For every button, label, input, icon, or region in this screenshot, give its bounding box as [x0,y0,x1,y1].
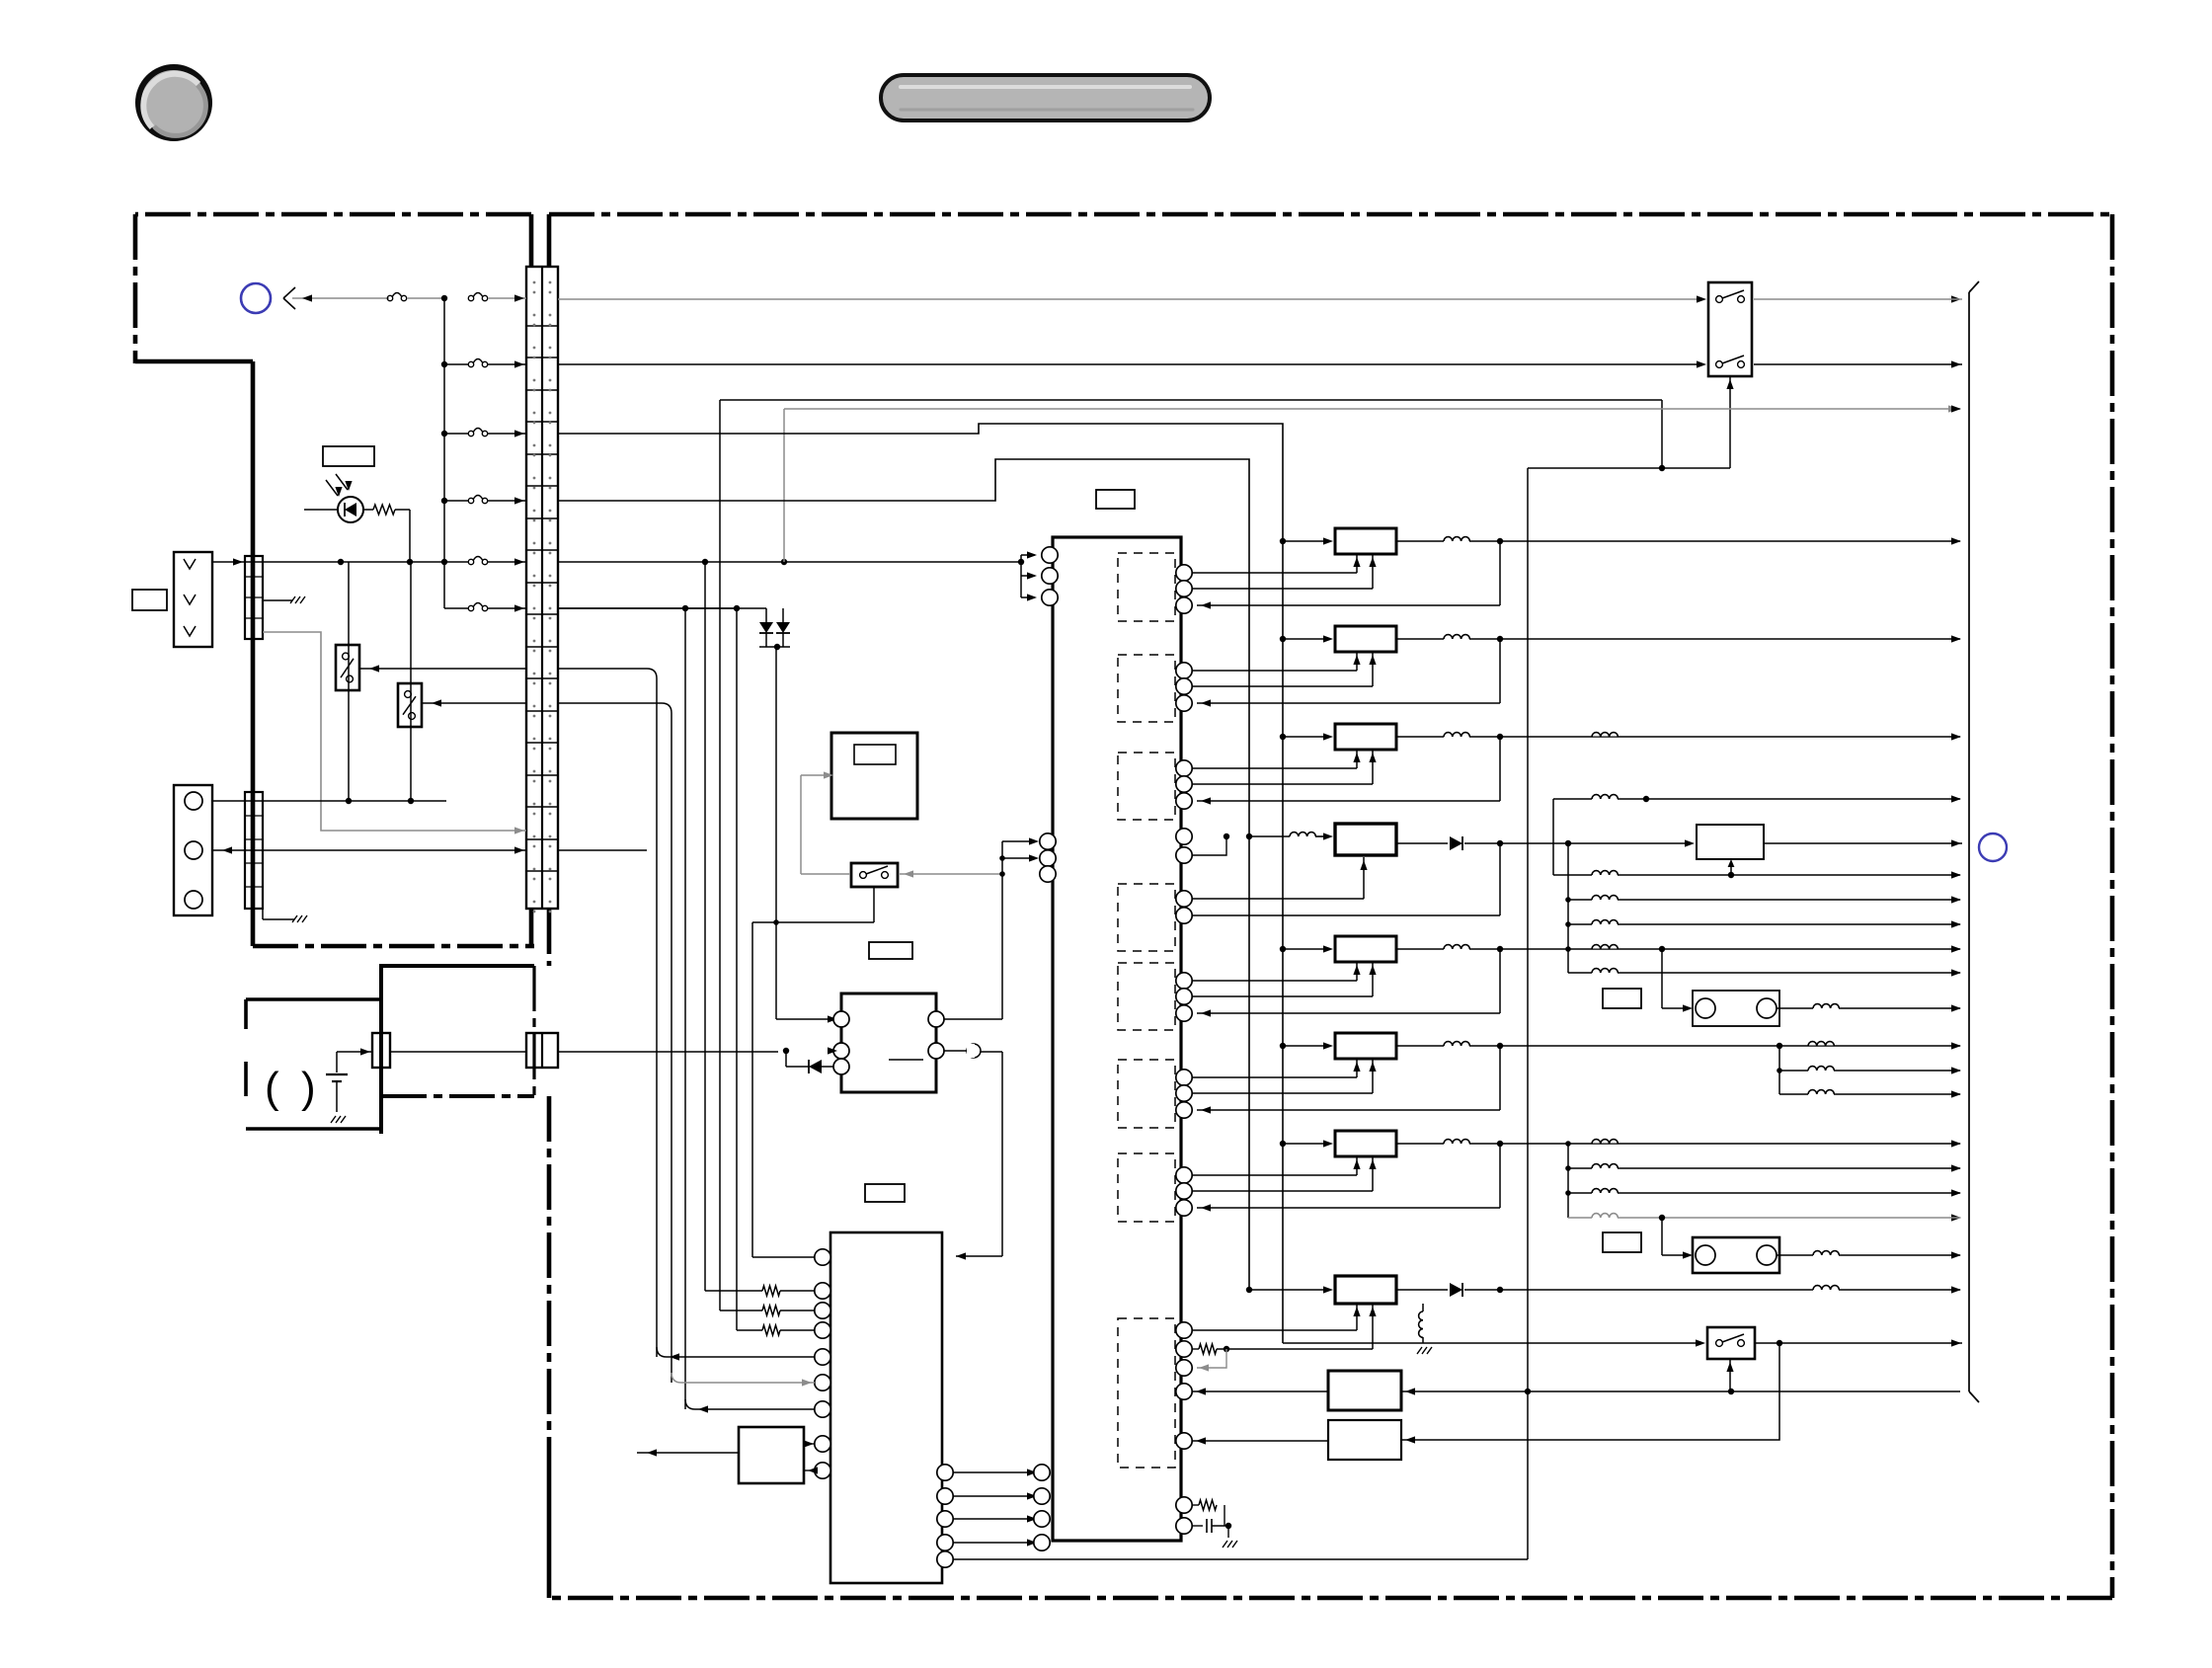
svg-text:): ) [301,1064,316,1112]
svg-text:(: ( [265,1064,279,1112]
